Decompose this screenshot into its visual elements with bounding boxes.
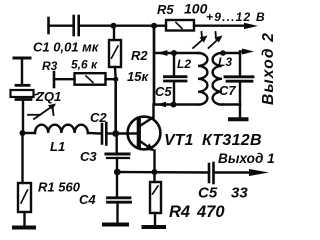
svg-text:L2: L2 (177, 57, 191, 71)
wire (21, 58, 23, 85)
svg-text:Выход 1: Выход 1 (218, 151, 275, 166)
resistor R4 (150, 182, 161, 213)
wire (153, 172, 155, 182)
adjuster arrow L3 (209, 32, 223, 48)
ground R1 (14, 226, 34, 230)
wire (54, 78, 75, 80)
wire (215, 171, 257, 173)
wire tank bottom (154, 103, 198, 105)
node: crystal top terminal bar (14, 57, 30, 60)
node base junction (112, 130, 119, 137)
wire (154, 25, 166, 27)
svg-text:VT1: VT1 (164, 132, 193, 149)
wire (22, 100, 24, 134)
svg-text:C3: C3 (80, 149, 97, 164)
svg-text:L1: L1 (50, 139, 65, 154)
node junction C1/R2 (111, 23, 117, 29)
svg-text:15к: 15к (127, 69, 149, 84)
arrow output 2 (242, 49, 254, 55)
label ZQ1 (34, 94, 39, 95)
wire (88, 132, 101, 135)
node junction emitter/R4 (152, 169, 158, 175)
node: R3 left terminal bar (53, 72, 56, 87)
svg-text:C1 0,01 мк: C1 0,01 мк (33, 40, 100, 55)
node small arrow on tank bottom wire (157, 102, 167, 108)
ground C4 (104, 223, 127, 227)
wire (222, 103, 240, 105)
svg-text:C5: C5 (155, 84, 172, 99)
svg-text:C2: C2 (90, 110, 107, 125)
adjuster arrow L1 (28, 104, 56, 120)
wire output2 (239, 52, 241, 54)
svg-text:C5: C5 (198, 185, 218, 202)
wire collector vertical (152, 105, 154, 118)
wire base (116, 132, 137, 134)
resistor R2 (109, 40, 121, 67)
wire rail right (194, 25, 246, 27)
node junction C3/C4 (114, 169, 121, 176)
wire (174, 52, 198, 54)
wire (107, 132, 115, 134)
wire (117, 171, 209, 174)
node: C1 left terminal bar (47, 18, 50, 33)
wire (21, 133, 23, 183)
node junction crystal/L1/R1 (20, 130, 26, 136)
resistor R3 (75, 73, 106, 85)
svg-text:C4: C4 (79, 192, 96, 207)
capacitor C1 (74, 16, 79, 35)
node junction tank bottom (171, 102, 177, 108)
svg-text:Выход 2: Выход 2 (260, 32, 276, 105)
svg-text:470: 470 (196, 203, 225, 221)
wire (106, 78, 116, 80)
svg-text:R5: R5 (157, 2, 174, 17)
node junction L3 top (220, 50, 226, 56)
wire (49, 25, 73, 27)
wire tank top arrow (156, 52, 174, 54)
node junction rail/collector line (151, 23, 157, 29)
wire R2 top (113, 26, 115, 40)
svg-text:R1 560: R1 560 (38, 180, 81, 195)
svg-text:ZQ1: ZQ1 (35, 89, 61, 104)
resistor R1 (18, 183, 31, 212)
wire (154, 213, 156, 226)
svg-text:R4: R4 (169, 203, 190, 221)
capacitor C2 (102, 123, 106, 145)
wire base vertical (114, 79, 117, 133)
svg-text:5,6 к: 5,6 к (71, 58, 98, 72)
wire R2 bottom (114, 67, 117, 79)
svg-text:L3: L3 (218, 55, 232, 69)
capacitor C6 (165, 53, 187, 105)
wire (222, 52, 240, 54)
wire (23, 212, 25, 226)
wire (80, 25, 154, 27)
svg-text:33: 33 (231, 185, 248, 202)
resistor R5 (166, 20, 194, 31)
capacitor C5 (209, 163, 214, 183)
node junction tank top (171, 50, 177, 56)
ground tank (230, 117, 247, 121)
ground R4 (144, 225, 165, 229)
svg-text:R3: R3 (42, 59, 58, 73)
capacitor C7 (225, 53, 253, 105)
svg-text:R2: R2 (131, 48, 148, 63)
arrow head pointing left (157, 50, 168, 56)
arrow output 1 (249, 169, 269, 176)
capacitor C4 (108, 172, 131, 223)
inductor L3 (213, 53, 222, 105)
crystal ZQ1 (11, 85, 34, 99)
capacitor C3 (106, 134, 129, 173)
wire (239, 105, 241, 119)
svg-text:100: 100 (184, 1, 208, 17)
transistor VT1 (128, 117, 161, 151)
node junction R2/R3/base (113, 77, 118, 82)
svg-text:КТ312В: КТ312В (202, 132, 262, 149)
wire collector to rail (153, 26, 156, 105)
wire (23, 132, 36, 134)
inductor L2 (198, 53, 207, 105)
svg-text:+9...12 В: +9...12 В (206, 10, 266, 24)
inductor L1 (35, 125, 88, 133)
wire emitter vertical (153, 151, 155, 173)
power arrow +9...12 B (244, 23, 258, 29)
svg-text:C7: C7 (219, 83, 236, 98)
adjuster arrow L2 (193, 32, 208, 48)
